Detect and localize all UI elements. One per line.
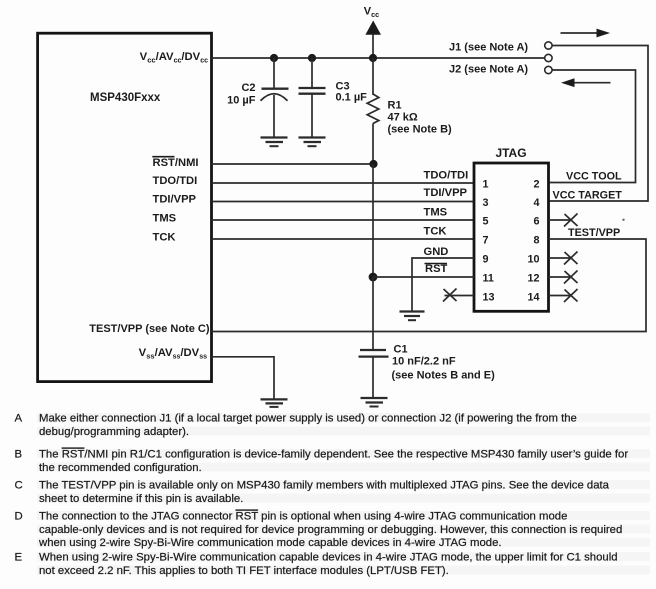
svg-text:J1 (see Note A): J1 (see Note A) [449, 42, 528, 54]
svg-text:TCK: TCK [153, 232, 176, 244]
jumper circle middle (Vcc) [545, 54, 552, 61]
svg-text:(see Notes B and E): (see Notes B and E) [392, 370, 496, 382]
svg-text:RST/NMI: RST/NMI [153, 157, 199, 169]
svg-text:J2 (see Note A): J2 (see Note A) [449, 64, 528, 76]
svg-text:B: B [15, 449, 23, 461]
wire pin 13 stub [445, 295, 475, 297]
svg-text:JTAG: JTAG [495, 146, 526, 160]
node junction Vcc rail / R1 [369, 54, 377, 62]
wire junction down to C1 [372, 277, 374, 350]
connector JTAG box [474, 163, 549, 311]
capacitor C2 (polarized) [261, 58, 289, 137]
svg-text:TEST/VPP: TEST/VPP [568, 227, 620, 239]
svg-text:TDO/TDI: TDO/TDI [424, 170, 469, 182]
wire R1 node down to RST junction [372, 164, 374, 277]
wire Vcc rail from IC to jumper circle [212, 57, 545, 59]
wire TCK [212, 238, 475, 240]
svg-text:A: A [15, 413, 23, 425]
svg-text:TCK: TCK [424, 226, 447, 238]
label RST at JTAG [425, 263, 448, 275]
svg-text:When using 2-wire Spy-Bi-Wire: When using 2-wire Spy-Bi-Wire communicat… [39, 552, 618, 564]
svg-text:12: 12 [527, 272, 539, 284]
svg-text:8: 8 [533, 234, 539, 246]
wire J2 circle to JTAG pin 2 [549, 70, 636, 183]
IC MSP430Fxxx box [38, 33, 212, 381]
power Vcc symbol arrow [365, 21, 381, 59]
capacitor C1 [359, 350, 389, 397]
wire RST pin 11 to junction [373, 276, 474, 278]
svg-text:The RST/NMI pin R1/C1 configur: The RST/NMI pin R1/C1 configuration is d… [39, 449, 628, 461]
svg-text:E: E [15, 552, 23, 564]
jumper circle top (J1) [545, 42, 552, 49]
node junction RST / C1 [369, 273, 378, 282]
svg-text:7: 7 [483, 234, 489, 246]
svg-text:RST: RST [425, 263, 448, 275]
svg-text:GND: GND [424, 246, 449, 258]
wire J1 circle to JTAG pin 4 [549, 46, 649, 202]
no-connect X pin 13 [443, 289, 457, 302]
ground at JTAG GND [400, 312, 425, 321]
ground below C3 [299, 138, 326, 147]
svg-text:4: 4 [533, 197, 539, 209]
svg-text:when using 2-wire Spy-Bi-Wire: when using 2-wire Spy-Bi-Wire communicat… [38, 537, 502, 549]
no-connect X pin 12 [564, 271, 578, 284]
note A [15, 413, 577, 438]
no-connect X pin 10 [564, 252, 578, 265]
svg-text:9: 9 [483, 253, 489, 265]
wire Vss to ground [212, 357, 275, 399]
svg-text:TMS: TMS [153, 213, 177, 225]
svg-text:47 kΩ: 47 kΩ [388, 111, 418, 123]
wire TDI/VPP [212, 201, 475, 203]
resistor R1 [367, 58, 379, 164]
ground below C2 [261, 138, 288, 147]
svg-text:D: D [15, 511, 23, 523]
svg-text:13: 13 [483, 291, 495, 303]
svg-text:TDI/VPP: TDI/VPP [424, 187, 468, 199]
note C [15, 480, 610, 505]
svg-text:TMS: TMS [424, 207, 448, 219]
note B [15, 449, 629, 474]
svg-text:10 nF/2.2 nF: 10 nF/2.2 nF [392, 356, 456, 368]
arrow out to tool [561, 29, 611, 38]
wire TDO/TDI [212, 182, 475, 184]
wire pin 12 stub [549, 276, 571, 278]
svg-text:C2: C2 [241, 82, 255, 94]
svg-text:14: 14 [527, 291, 539, 303]
ground below C1 [361, 398, 388, 407]
svg-text:sheet to determine if this pin: sheet to determine if this pin is availa… [39, 493, 243, 505]
svg-text:debug/programming adapter).: debug/programming adapter). [39, 426, 189, 438]
wire pin 14 stub [549, 295, 571, 297]
node junction Vcc rail / C2 [270, 54, 278, 62]
svg-text:The TEST/VPP pin is available: The TEST/VPP pin is available only on MS… [39, 480, 610, 492]
wire TMS [212, 219, 475, 221]
svg-text:MSP430Fxxx: MSP430Fxxx [90, 92, 161, 104]
svg-text:the recommended configuration.: the recommended configuration. [39, 462, 202, 474]
svg-text:6: 6 [533, 215, 539, 227]
svg-text:2: 2 [533, 178, 539, 190]
svg-text:VCC TOOL: VCC TOOL [566, 171, 622, 183]
wire pin 8 to TEST/VPP of IC [212, 239, 647, 332]
wire pin 6 stub [549, 219, 571, 221]
svg-text:(see Note B): (see Note B) [388, 123, 453, 135]
svg-text:The connection to the JTAG con: The connection to the JTAG connector RST… [39, 511, 567, 523]
wire GND pin 9 to ground [412, 258, 474, 311]
node junction RST/NMI / R1 [369, 160, 377, 168]
svg-text:10: 10 [527, 253, 539, 265]
wire pin 10 stub [549, 257, 571, 259]
svg-text:TEST/VPP (see Note C): TEST/VPP (see Note C) [89, 323, 210, 335]
svg-text:C1: C1 [394, 344, 408, 356]
arrow in from adapter [561, 78, 611, 87]
jumper circle bottom (J2) [545, 66, 552, 73]
svg-text:Make either connection J1 (if: Make either connection J1 (if a local ta… [39, 413, 577, 425]
no-connect X pin 14 [564, 289, 578, 302]
svg-text:R1: R1 [388, 100, 402, 112]
svg-text:capable-only devices and is no: capable-only devices and is not required… [39, 524, 622, 536]
svg-text:10 µF: 10 µF [227, 95, 256, 107]
note D [15, 511, 623, 550]
svg-text:VCC TARGET: VCC TARGET [553, 190, 623, 202]
no-connect X pin 6 [564, 214, 578, 227]
note E [15, 552, 618, 577]
svg-text:1: 1 [483, 178, 489, 190]
svg-text:TDO/TDI: TDO/TDI [153, 175, 198, 187]
node junction Vcc rail / C3 [308, 54, 316, 62]
svg-text:not exceed 2.2 nF. This applie: not exceed 2.2 nF. This applies to both … [39, 565, 449, 577]
capacitor C3 [299, 58, 326, 137]
wire RST/NMI from IC to R1 [212, 163, 374, 165]
svg-text:5: 5 [483, 215, 489, 227]
pin label RST/NMI [152, 157, 198, 169]
svg-text:3: 3 [483, 197, 489, 209]
svg-text:C: C [15, 480, 23, 492]
svg-text:0.1 µF: 0.1 µF [336, 92, 368, 104]
svg-text:TDI/VPP: TDI/VPP [153, 194, 197, 206]
ground at Vss [261, 399, 288, 407]
svg-text:11: 11 [483, 272, 494, 284]
